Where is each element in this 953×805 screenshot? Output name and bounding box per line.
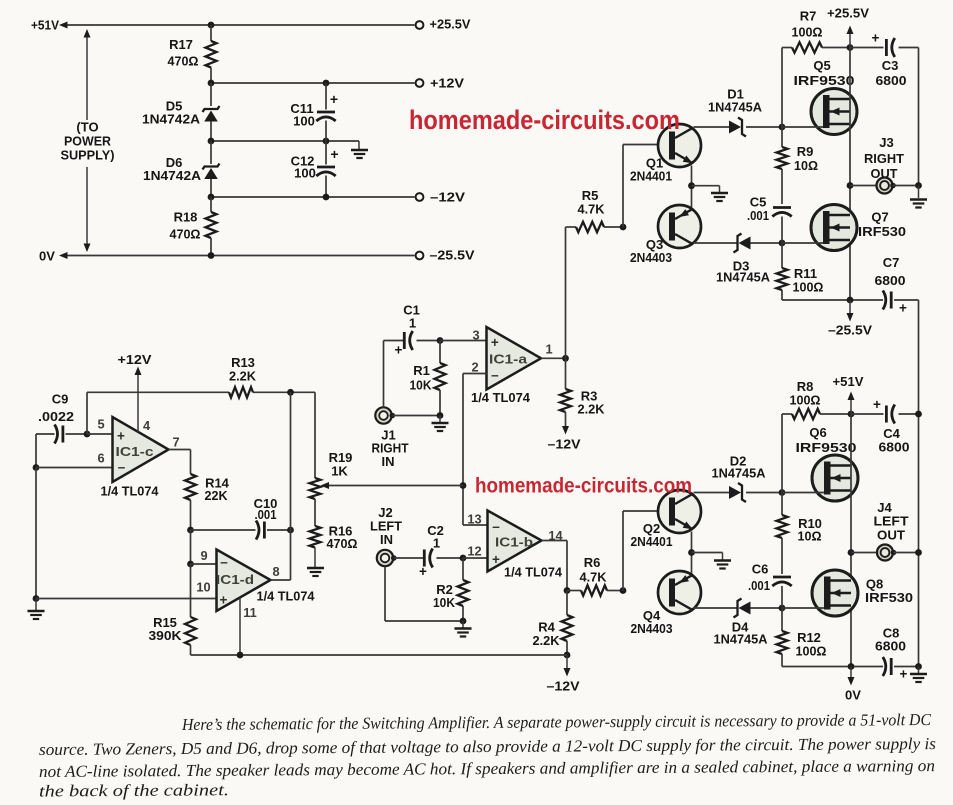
svg-text:1/4 TL074: 1/4 TL074: [471, 390, 531, 405]
diode D1: [729, 121, 741, 134]
svg-text:6800: 6800: [876, 73, 907, 88]
svg-text:9: 9: [200, 548, 207, 563]
resistor R7: [782, 47, 792, 49]
ground Q2/Q4: [692, 552, 723, 554]
arrowhead R19 wiper: [321, 482, 330, 489]
svg-text:100Ω: 100Ω: [790, 393, 821, 408]
wire pin12 IC1-b: [463, 557, 488, 559]
svg-text:+: +: [492, 552, 500, 567]
svg-text:1/4 TL074: 1/4 TL074: [504, 565, 563, 580]
svg-text:+: +: [872, 31, 880, 46]
svg-text:6800: 6800: [875, 639, 906, 654]
arrowhead 0V: [848, 677, 855, 686]
svg-text:IC1-a: IC1-a: [489, 352, 528, 367]
wire pin11 down: [239, 598, 241, 656]
svg-text:SUPPLY): SUPPLY): [61, 148, 115, 163]
wire Q5/Q7 drain line: [849, 48, 851, 301]
wire C7 to right rail: [894, 299, 919, 301]
wire J2 to C2: [394, 557, 424, 559]
svg-text:IRF9530: IRF9530: [794, 73, 855, 88]
svg-text:+: +: [899, 301, 907, 316]
svg-text:IC1-b: IC1-b: [495, 535, 533, 550]
svg-text:1: 1: [409, 316, 416, 331]
jack J4 LEFT OUT: [877, 545, 893, 561]
svg-text:1: 1: [545, 342, 552, 357]
wire Q1 collector to D1: [694, 126, 730, 128]
ground Q1/Q3: [692, 185, 720, 187]
node C2/R2/pin12: [460, 555, 467, 562]
capacitor C11: [325, 83, 327, 110]
wire +12V rail: [211, 82, 415, 84]
svg-text:–12V: –12V: [547, 679, 580, 694]
wire IC1-b output: [542, 540, 568, 542]
resistor R4: [566, 591, 568, 616]
svg-text:OUT: OUT: [877, 528, 905, 543]
svg-text:–: –: [492, 519, 500, 534]
ground J2/R2: [462, 621, 464, 628]
svg-text:470Ω: 470Ω: [168, 54, 199, 69]
wire J3 line right: [893, 185, 919, 187]
resistor R13: [229, 387, 253, 397]
terminal -25.5V: [416, 252, 424, 260]
svg-text:IRF530: IRF530: [858, 224, 906, 239]
wire J4 line left: [851, 552, 877, 554]
node R19 wiper junction: [460, 482, 467, 489]
wire bottom rail -25.5V: [782, 299, 883, 301]
node -25.5V arrow: [847, 297, 854, 304]
node Q1/Q3 base: [620, 224, 627, 231]
svg-text:the back of the cabinet.: the back of the cabinet.: [39, 780, 229, 800]
svg-text:+: +: [330, 146, 338, 162]
svg-text:J3: J3: [879, 135, 893, 150]
node pin6: [33, 464, 40, 471]
svg-text:–: –: [220, 555, 228, 570]
wire R19-R16: [314, 499, 316, 526]
node C8 right: [915, 663, 922, 670]
arrowhead +51V rail: [848, 392, 855, 401]
svg-text:Q7: Q7: [871, 210, 888, 225]
wire left vertical to ground: [35, 468, 37, 599]
wire R11 segment: [781, 243, 783, 268]
svg-text:2.2K: 2.2K: [229, 369, 257, 384]
svg-text:R18: R18: [174, 210, 198, 225]
mosfet Q6 IRF9530: [812, 455, 858, 501]
op-amp IC1-a: [487, 327, 542, 390]
node R7/C3/+25.5V: [847, 44, 854, 51]
wire C9 up to feedback: [86, 392, 88, 434]
node J4 left: [848, 549, 855, 556]
node emitter ground: [688, 182, 695, 189]
node Q2/Q4 base: [620, 587, 627, 594]
arrowhead R3 -12V: [562, 426, 569, 435]
svg-text:4.7K: 4.7K: [580, 570, 608, 585]
svg-text:+: +: [117, 429, 125, 444]
svg-text:POWER: POWER: [64, 134, 112, 149]
capacitor C10: [191, 529, 256, 531]
wire Q1 base vertical: [622, 145, 624, 228]
svg-text:6: 6: [97, 451, 104, 466]
wire J1 sleeve to R1 gnd: [392, 415, 440, 417]
svg-text:R6: R6: [584, 555, 601, 570]
node J3 left: [847, 182, 854, 189]
resistor R14: [185, 474, 196, 500]
svg-text:R17: R17: [169, 37, 193, 52]
resistor R12: [777, 631, 788, 654]
svg-text:4.7K: 4.7K: [578, 202, 606, 217]
wire Q4 collector to D4: [694, 607, 738, 609]
svg-text:2.2K: 2.2K: [533, 633, 561, 648]
svg-text:100Ω: 100Ω: [793, 280, 824, 295]
op-amp IC1-c: [113, 417, 169, 482]
diode D3: [734, 234, 742, 253]
wire J2 sleeve down: [384, 567, 386, 622]
svg-text:LEFT: LEFT: [874, 514, 909, 529]
svg-text:–: –: [118, 460, 126, 475]
svg-text:0V: 0V: [39, 249, 55, 264]
resistor R8: [782, 413, 792, 415]
svg-text:.001: .001: [748, 578, 770, 593]
wire -25.5V arrow: [849, 300, 851, 317]
svg-text:homemade-circuits.com: homemade-circuits.com: [475, 474, 692, 498]
wire J4 line right: [894, 552, 919, 554]
wire D1 to node: [746, 126, 782, 128]
wire pin4 +12V: [137, 369, 139, 432]
svg-text:C9: C9: [52, 392, 69, 407]
svg-text:3: 3: [472, 328, 479, 343]
wire pin10 IC1-d: [36, 598, 217, 600]
wire Q1/Q3 emitter vertical: [691, 166, 693, 209]
resistor R11: [777, 268, 788, 290]
svg-text:IRF9530: IRF9530: [796, 440, 857, 455]
arrowhead +12V IC1-c: [135, 367, 142, 376]
wire R19 wiper: [328, 485, 464, 487]
capacitor C6: [773, 576, 791, 579]
svg-text:1N4742A: 1N4742A: [142, 112, 201, 127]
resistor R1: [439, 341, 441, 364]
svg-text:1N4745A: 1N4745A: [708, 100, 763, 115]
svg-text:7: 7: [172, 435, 179, 450]
wire R8 left vertical: [781, 414, 783, 515]
resistor R18: [210, 197, 212, 212]
wire +51V arrow: [850, 395, 852, 414]
resistor R3: [565, 358, 567, 389]
svg-text:2: 2: [471, 360, 478, 375]
svg-text:+: +: [395, 343, 403, 358]
node C11 bottom: [323, 138, 330, 145]
svg-text:+51V: +51V: [31, 18, 59, 33]
wire Q6 gate: [782, 492, 824, 494]
wire Q1 base: [623, 144, 658, 146]
wire down to R19: [314, 392, 316, 478]
mosfet Q7 IRF530: [811, 205, 857, 251]
svg-text:1N4745A: 1N4745A: [712, 466, 767, 481]
node D1/R9/gate: [779, 124, 786, 131]
node emitter ground 2: [688, 549, 695, 556]
capacitor C1: [403, 332, 406, 349]
svg-text:10: 10: [196, 580, 210, 595]
svg-text:+: +: [330, 91, 338, 107]
node R8/C4/+51V: [848, 411, 855, 418]
wire Q2 base vertical: [622, 511, 624, 591]
svg-text:1: 1: [433, 536, 440, 551]
mosfet Q8 IRF530: [812, 570, 858, 616]
node R13 right: [287, 389, 294, 396]
svg-text:–25.5V: –25.5V: [828, 323, 872, 338]
svg-text:–25.5V: –25.5V: [430, 248, 475, 263]
node IC1-a output: [562, 355, 569, 362]
node top rail / R17: [208, 22, 215, 29]
wire IC1-a output: [541, 357, 566, 359]
svg-text:6800: 6800: [879, 440, 910, 455]
svg-text:100Ω: 100Ω: [792, 25, 823, 40]
capacitor C12: [325, 141, 327, 165]
wire +51V top rail: [63, 24, 415, 26]
svg-text:.001: .001: [747, 208, 769, 223]
wire C4 to right rail: [899, 413, 919, 415]
node R4 bottom rail: [564, 652, 571, 659]
svg-text:22K: 22K: [205, 488, 229, 503]
wire R12 segment: [781, 608, 783, 631]
svg-text:Q6: Q6: [809, 425, 826, 440]
node R1 bottom: [437, 412, 444, 419]
ground R16: [314, 548, 316, 568]
svg-text:+51V: +51V: [833, 374, 864, 389]
wire Q2/Q4 emitter vertical: [691, 532, 693, 575]
svg-text:11: 11: [243, 605, 257, 620]
zener diode D6: [210, 141, 212, 164]
wire Q2 collector to D2: [694, 492, 730, 494]
node J4 right: [915, 549, 922, 556]
jack J3 RIGHT OUT: [877, 178, 893, 194]
wire right rail lower: [918, 300, 920, 667]
wire inverting feedback vertical: [462, 374, 464, 526]
terminal -12V: [416, 193, 424, 201]
svg-text:390K: 390K: [149, 628, 183, 643]
svg-text:+: +: [491, 335, 499, 350]
wire Q3 collector to D3: [694, 242, 738, 244]
svg-text:homemade-circuits.com: homemade-circuits.com: [409, 105, 680, 135]
svg-text:10Ω: 10Ω: [794, 158, 818, 173]
node C10 left: [187, 527, 194, 534]
transistor Q2: [658, 490, 701, 533]
node C12 bottom: [323, 194, 330, 201]
svg-text:R9: R9: [797, 144, 814, 159]
wire -12V rail: [211, 196, 415, 198]
wire +25.5V arrow: [849, 29, 851, 48]
wire D2 to node: [746, 492, 782, 494]
svg-text:IC1-c: IC1-c: [116, 444, 154, 459]
svg-text:0V: 0V: [845, 688, 861, 703]
arrowhead +25.5V: [847, 26, 854, 35]
wire node to C3: [850, 47, 884, 49]
wire mid rail D5/D6 junction: [211, 140, 359, 142]
svg-text:IRF530: IRF530: [865, 590, 913, 605]
svg-text:(TO: (TO: [76, 120, 98, 135]
wire pin3 IC1-a: [440, 340, 487, 342]
node R2 bottom: [460, 618, 467, 625]
transistor Q3: [658, 205, 701, 248]
svg-text:1N4745A: 1N4745A: [714, 632, 769, 647]
svg-text:R1: R1: [413, 363, 430, 378]
resistor R16: [310, 526, 321, 548]
node C4 right: [915, 411, 922, 418]
svg-text:C3: C3: [882, 58, 899, 73]
svg-text:.001: .001: [255, 507, 277, 522]
node D6/R18 -12V: [208, 194, 215, 201]
resistor R9: [777, 147, 788, 169]
svg-text:10Ω: 10Ω: [798, 529, 822, 544]
svg-text:–: –: [491, 368, 499, 383]
capacitor C9: [36, 433, 55, 435]
wire feedback top rail: [87, 391, 229, 393]
op-amp IC1-d: [217, 550, 271, 612]
capacitor C4: [885, 406, 888, 423]
wire C8 to right rail: [894, 666, 919, 668]
zener diode D5: [210, 83, 212, 106]
arrowhead -25.5V: [847, 313, 854, 322]
arrowhead +51V rail: [59, 22, 68, 29]
wire R4 arrow -12V: [566, 655, 568, 672]
node J3 right: [915, 182, 922, 189]
wire Q5 gate: [782, 126, 823, 128]
ground J1/R1: [439, 416, 441, 423]
diode D2: [729, 486, 741, 499]
svg-text:+: +: [220, 593, 228, 608]
svg-text:1/4 TL074: 1/4 TL074: [257, 589, 316, 604]
svg-text:100: 100: [294, 166, 316, 181]
svg-text:R7: R7: [800, 9, 817, 24]
wire bottom -12V rail: [191, 654, 568, 656]
node R18 0V: [208, 252, 215, 259]
svg-text:IC1-d: IC1-d: [216, 572, 254, 587]
jack J1 RIGHT IN: [375, 407, 391, 423]
jack J2 LEFT IN: [377, 550, 393, 566]
terminal +25.5V (power): [416, 21, 424, 29]
transistor Q4: [658, 571, 701, 614]
svg-text:5: 5: [97, 417, 104, 432]
capacitor C3: [885, 39, 888, 56]
svg-text:100Ω: 100Ω: [796, 644, 827, 659]
node D5/D6 junction: [208, 138, 215, 145]
wire arrow to power supply lower: [86, 167, 88, 249]
node D4/R12: [779, 605, 786, 612]
wire node to C4: [851, 413, 884, 415]
svg-text:.0022: .0022: [38, 409, 74, 424]
svg-text:2N4401: 2N4401: [631, 534, 673, 549]
wire pin5 IC1-c: [87, 433, 113, 435]
svg-text:12: 12: [467, 544, 481, 559]
svg-text:470Ω: 470Ω: [170, 227, 201, 242]
node C10 right: [287, 527, 294, 534]
wire pin9 stub: [190, 530, 192, 564]
resistor R6: [567, 590, 581, 592]
svg-text:Q5: Q5: [813, 58, 830, 73]
wire R15 top: [190, 564, 192, 617]
ground IC1-c/d input: [35, 599, 37, 611]
wire R7 left vertical: [781, 48, 783, 148]
resistor R10: [777, 515, 788, 538]
capacitor C2: [423, 550, 426, 567]
wire IC1-a out up to R5: [565, 227, 567, 358]
svg-text:1N4742A: 1N4742A: [143, 168, 202, 183]
wire J1 to C1: [383, 341, 385, 408]
resistor R15: [185, 617, 196, 645]
svg-text:10K: 10K: [410, 378, 433, 393]
ground J3: [918, 186, 920, 199]
wire C10 vertical: [290, 392, 292, 580]
ground right rail bottom: [918, 667, 920, 674]
svg-text:IN: IN: [380, 532, 393, 547]
diode D4: [734, 599, 742, 618]
ground power mid: [358, 141, 360, 149]
svg-text:470Ω: 470Ω: [327, 536, 358, 551]
wire Q2 base: [623, 510, 658, 512]
wire R13 to node: [253, 391, 315, 393]
svg-text:RIGHT: RIGHT: [864, 151, 904, 166]
wire C9 left corner: [35, 434, 37, 468]
arrowhead 0V rail: [59, 252, 68, 259]
svg-text:+12V: +12V: [430, 76, 464, 91]
wire C3 to right rail: [899, 47, 919, 49]
op-amp IC1-b: [488, 511, 542, 572]
svg-text:IN: IN: [382, 454, 395, 469]
svg-text:+25.5V: +25.5V: [430, 17, 471, 32]
node pin11 rail: [237, 652, 244, 659]
node pin10 gnd: [33, 595, 40, 602]
svg-text:4: 4: [143, 418, 151, 433]
wire J3 line left: [850, 185, 877, 187]
wire 0V arrow: [850, 667, 852, 682]
wire pin8 IC1-d output: [271, 579, 291, 581]
wire Q7 gate: [782, 242, 823, 244]
svg-text:+: +: [873, 397, 881, 412]
svg-text:+: +: [900, 667, 908, 682]
transistor Q1: [658, 124, 701, 167]
node D2/R10/gate: [779, 489, 786, 496]
wire D3 to node: [751, 242, 783, 244]
wire bottom rail 0V: [782, 666, 883, 668]
wire D4 to node: [751, 607, 783, 609]
capacitor C8: [890, 658, 893, 675]
svg-text:6800: 6800: [875, 273, 906, 288]
node C11 top: [323, 80, 330, 87]
wire pin13 IC1-b: [463, 524, 488, 526]
svg-text:+: +: [419, 564, 427, 579]
svg-text:C7: C7: [883, 255, 900, 270]
mosfet Q5 IRF9530: [811, 89, 857, 135]
wire IC1-c output: [169, 449, 191, 451]
svg-text:2N4403: 2N4403: [630, 250, 672, 265]
arrowhead R4 -12V: [564, 668, 571, 677]
terminal +12V: [416, 79, 424, 87]
svg-text:–12V: –12V: [548, 437, 581, 452]
svg-text:100: 100: [293, 114, 315, 129]
node C9/pin5: [84, 431, 91, 438]
capacitor C5: [773, 206, 791, 209]
node 0V arrow: [848, 663, 855, 670]
capacitor C7: [890, 292, 893, 309]
wire 0V rail: [63, 255, 415, 257]
wire Q8 gate: [782, 607, 824, 609]
node pin9: [187, 561, 194, 568]
svg-text:2.2K: 2.2K: [578, 402, 606, 417]
resistor R17: [210, 25, 212, 41]
svg-text:8: 8: [272, 564, 279, 579]
svg-text:+12V: +12V: [118, 352, 152, 367]
wire arrow to power supply upper: [86, 31, 88, 120]
svg-text:1/4 TL074: 1/4 TL074: [101, 484, 160, 499]
svg-text:2N4403: 2N4403: [631, 621, 673, 636]
